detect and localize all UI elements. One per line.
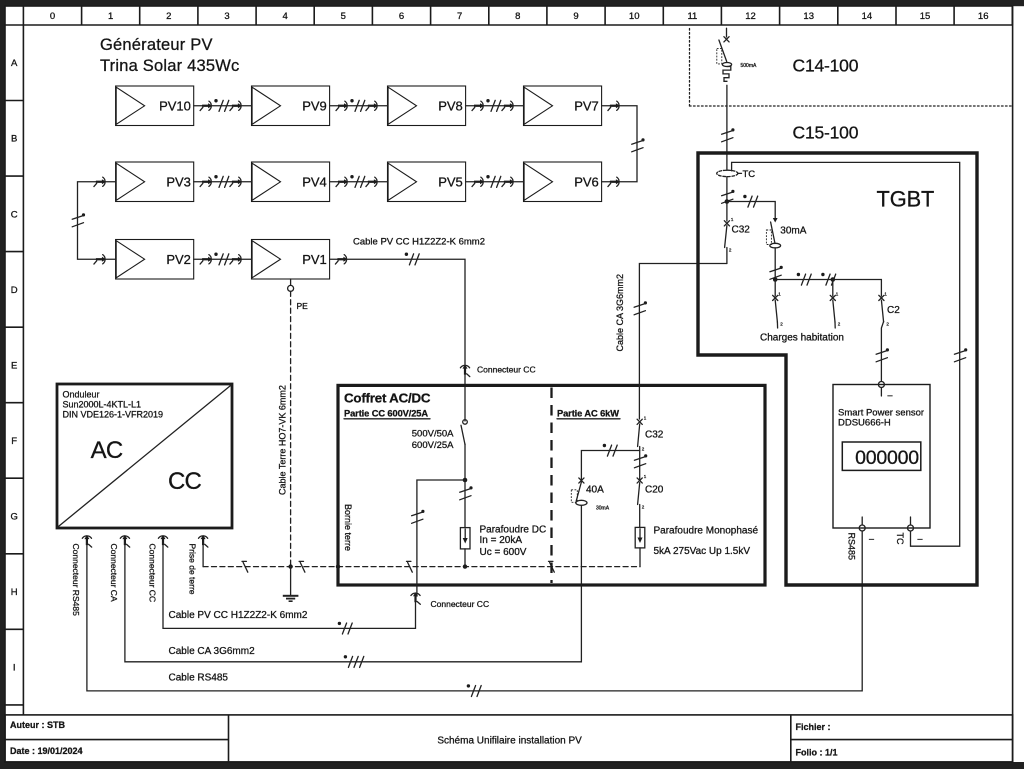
connector: Prise de terre (onduleur) (187, 535, 208, 595)
svg-text:Schéma Unifilaire installation: Schéma Unifilaire installation PV (437, 736, 582, 747)
junction TGBT input node (725, 199, 730, 204)
PV module PV4 (252, 162, 330, 202)
svg-text:PV9: PV9 (302, 99, 327, 114)
svg-text:TGBT: TGBT (877, 187, 935, 212)
surge arrester Parafoudre DC (460, 528, 470, 567)
svg-text:TC: TC (895, 533, 905, 545)
svg-text:In = 20kA: In = 20kA (480, 535, 523, 546)
svg-text:DIN VDE126-1-VFR2019: DIN VDE126-1-VFR2019 (63, 410, 164, 420)
wire PV5-PV6 (466, 175, 524, 187)
svg-text:000000: 000000 (855, 447, 919, 469)
svg-text:13: 13 (803, 11, 814, 22)
svg-text:10: 10 (629, 11, 640, 22)
svg-text:Auteur : STB: Auteur : STB (10, 720, 65, 730)
svg-text:7: 7 (457, 11, 462, 22)
wire PV2-PV1 (194, 253, 252, 265)
svg-text:Fichier :: Fichier : (796, 722, 831, 732)
breaker C2 (879, 280, 900, 327)
svg-text:9: 9 (573, 11, 578, 22)
label Parafoudre Monophase values (654, 526, 759, 558)
PV module PV10 (116, 86, 194, 126)
svg-text:Connecteur CC: Connecteur CC (477, 365, 536, 375)
wire PE dashed horizontal earth bus (203, 566, 640, 568)
PE terminal circle under PV1 (288, 279, 294, 291)
PV module PV6 (524, 162, 602, 202)
label Partie AC 6kW (557, 409, 620, 419)
PV module PV2 (116, 240, 194, 280)
svg-text:Folio : 1/1: Folio : 1/1 (796, 748, 838, 758)
PV module PV3 (116, 162, 194, 202)
zone boundary dotted C14 (690, 29, 1013, 107)
svg-text:40A: 40A (586, 485, 604, 496)
svg-text:2: 2 (166, 11, 171, 22)
inverter (Onduleur) box (57, 384, 232, 528)
svg-text:Cable RS485: Cable RS485 (169, 673, 229, 684)
svg-text:RS485: RS485 (847, 533, 857, 561)
wire Cable CA 3G6mm2 run (125, 506, 582, 667)
svg-text:Onduleur: Onduleur (63, 390, 100, 400)
svg-text:Cable PV CC H1Z2Z2-K 6mm2: Cable PV CC H1Z2Z2-K 6mm2 (353, 237, 485, 248)
svg-text:30mA: 30mA (780, 226, 806, 237)
wire DC to parafoudre (460, 480, 473, 528)
junction parafoudre DC earth (463, 564, 467, 568)
svg-text:Parafoudre Monophasé: Parafoudre Monophasé (654, 526, 759, 537)
svg-text:Uc = 600V: Uc = 600V (480, 547, 527, 558)
breaker C32 (coffret AC) (637, 416, 664, 452)
svg-text:PV6: PV6 (574, 174, 599, 189)
PV module PV1 (252, 240, 330, 280)
title block (5, 715, 1013, 762)
svg-text:Cable CA 3G6mm2: Cable CA 3G6mm2 (615, 274, 625, 352)
svg-text:Cable CA 3G6mm2: Cable CA 3G6mm2 (169, 646, 256, 657)
PE cable marks on earth bus (242, 561, 554, 572)
wire TC secondary loop (732, 162, 968, 546)
connector: Connecteur RS485 (onduleur) (71, 535, 92, 616)
wire PV7 to PV6 (right side) (602, 101, 645, 186)
disconnect switch 500V/50A (DC) (412, 420, 468, 480)
wire DC branch to connecteur CC (412, 480, 465, 596)
svg-text:8: 8 (515, 11, 520, 22)
svg-text:I: I (13, 663, 16, 674)
svg-text:11: 11 (687, 11, 697, 22)
PV module PV9 (252, 86, 330, 126)
svg-text:AC: AC (91, 437, 123, 464)
wire C2 to smart sensor (876, 322, 889, 382)
svg-text:14: 14 (862, 11, 873, 22)
svg-text:PV4: PV4 (302, 174, 327, 189)
wire Cable RS485 run (87, 531, 862, 697)
svg-text:Prise de terre: Prise de terre (187, 544, 197, 595)
svg-text:Cable PV CC H1Z2Z2-K 6mm2: Cable PV CC H1Z2Z2-K 6mm2 (169, 610, 308, 621)
svg-text:Coffret AC/DC: Coffret AC/DC (344, 391, 431, 406)
svg-text:16: 16 (978, 11, 989, 22)
wire Cable CA from TGBT down to coffret (634, 264, 727, 420)
svg-text:Parafoudre DC: Parafoudre DC (480, 525, 547, 536)
PV module PV7 (524, 86, 602, 126)
svg-text:E: E (11, 360, 17, 371)
wire PV1 output (Cable PV CC) to Coffret (330, 253, 465, 421)
svg-text:1: 1 (108, 11, 113, 22)
breaker charges habitation 1 (773, 280, 784, 329)
svg-text:PE: PE (297, 301, 309, 311)
svg-text:C32: C32 (645, 430, 664, 441)
svg-text:3: 3 (224, 11, 229, 22)
svg-text:0: 0 (50, 11, 55, 22)
svg-text:Date : 19/01/2024: Date : 19/01/2024 (10, 746, 83, 756)
svg-text:C2: C2 (887, 305, 900, 316)
svg-text:C32: C32 (732, 225, 751, 236)
svg-text:Partie AC 6kW: Partie AC 6kW (557, 409, 619, 419)
display 000000 (842, 442, 921, 470)
svg-text:C15-100: C15-100 (793, 123, 859, 143)
svg-text:5: 5 (341, 11, 346, 22)
svg-text:PV7: PV7 (574, 99, 599, 114)
Coffret AC/DC enclosure (338, 385, 765, 585)
svg-text:D: D (11, 285, 18, 296)
svg-text:C14-100: C14-100 (793, 56, 859, 76)
column header row with numbers 0-16 (5, 6, 1013, 25)
svg-text:6: 6 (399, 11, 404, 22)
svg-text:PV8: PV8 (438, 99, 463, 114)
svg-text:Trina Solar 435Wc: Trina Solar 435Wc (100, 57, 239, 75)
svg-text:Connecteur RS485: Connecteur RS485 (71, 544, 81, 617)
terminal TC (895, 517, 923, 545)
svg-text:600V/25A: 600V/25A (412, 440, 454, 451)
svg-text:30mA: 30mA (596, 506, 610, 512)
svg-text:TC: TC (743, 169, 756, 180)
svg-text:B: B (11, 134, 17, 145)
ground symbol (283, 567, 299, 602)
terminal sensor input (878, 382, 892, 401)
svg-text:C: C (11, 209, 18, 220)
wire Cable PV CC run (onduleur CC to coffret) (163, 541, 416, 634)
svg-text:–: – (918, 534, 923, 544)
TGBT enclosure (698, 153, 977, 585)
junction DC node (463, 478, 468, 483)
svg-text:PV2: PV2 (166, 252, 191, 267)
svg-text:CC: CC (168, 468, 202, 495)
svg-text:Charges habitation: Charges habitation (760, 333, 844, 344)
svg-text:5kA 275Vac Up 1.5kV: 5kA 275Vac Up 1.5kV (654, 546, 751, 557)
wire junction to 30mA RCD (727, 195, 778, 223)
row letter column A-I (5, 25, 23, 715)
svg-text:Connecteur CA: Connecteur CA (109, 544, 119, 602)
breaker C32 (TGBT) (724, 217, 750, 264)
svg-text:15: 15 (920, 11, 931, 22)
svg-text:F: F (11, 436, 17, 447)
junction Bornie terre node (336, 564, 340, 568)
svg-text:PV10: PV10 (159, 99, 191, 114)
PV module PV5 (388, 162, 466, 202)
wire earth (Prise de terre) down (202, 541, 204, 567)
connector: Connecteur CC (PV string into coffret) (460, 364, 535, 376)
svg-text:Partie CC 600V/25A: Partie CC 600V/25A (344, 409, 428, 419)
svg-text:PV5: PV5 (438, 174, 463, 189)
svg-text:Cable Terre HO7-VK 6mm2: Cable Terre HO7-VK 6mm2 (278, 385, 288, 495)
wire charges bus (775, 273, 881, 285)
svg-text:–: – (888, 390, 893, 400)
label Parafoudre DC values (480, 525, 547, 559)
junction charges bus node 2 (831, 277, 836, 282)
surge arrester Parafoudre Monophase (635, 527, 645, 566)
junction earth/PE node (288, 564, 292, 568)
wire PV3 to PV2 (left side) (72, 177, 115, 264)
wire C32 to C20 (634, 447, 647, 480)
svg-text:Sun2000L-4KTL-L1: Sun2000L-4KTL-L1 (63, 400, 142, 410)
svg-text:A: A (11, 58, 18, 69)
wire TC to junction (722, 177, 735, 221)
breaker C20 (637, 474, 664, 527)
svg-text:G: G (11, 511, 18, 522)
current transformer TC (717, 169, 756, 180)
connector: Connecteur CA (onduleur) (109, 535, 130, 602)
wire C32 branch to 40A RCD (581, 444, 639, 479)
wire PV3-PV4 (194, 175, 252, 187)
svg-text:Générateur PV: Générateur PV (100, 36, 213, 54)
connector: Connecteur CC (under coffret) (411, 592, 489, 609)
junction charges bus node 1 (773, 277, 778, 282)
svg-text:C20: C20 (645, 485, 664, 496)
wire 30mA to bus (770, 248, 783, 280)
PV module PV8 (388, 86, 466, 126)
RCD 30mA (TGBT) (766, 222, 806, 248)
wire PE dashed from PV1 to earth (290, 291, 292, 566)
svg-text:H: H (11, 587, 18, 598)
svg-text:PV3: PV3 (166, 174, 191, 189)
terminal RS485 (847, 517, 875, 560)
wire PV10-PV9 (194, 99, 252, 111)
svg-text:–: – (869, 534, 874, 544)
svg-text:DDSU666-H: DDSU666-H (838, 418, 891, 429)
svg-text:500V/50A: 500V/50A (412, 429, 454, 440)
svg-text:Connecteur CC: Connecteur CC (147, 544, 157, 603)
wire PV4-PV5 (330, 175, 388, 187)
wire AGCP to TGBT (722, 85, 735, 170)
svg-text:500mA: 500mA (741, 63, 758, 69)
wire PV9-PV8 (330, 99, 388, 111)
utility breaker AGCP 500mA (717, 28, 757, 81)
Smart Power sensor DDSU666-H box (833, 385, 930, 529)
svg-text:12: 12 (745, 11, 756, 22)
svg-text:Bornie terre: Bornie terre (343, 504, 353, 551)
wire PV8-PV7 (466, 99, 524, 111)
svg-text:4: 4 (283, 11, 288, 22)
breaker charges habitation 2 (830, 280, 841, 329)
svg-text:PV1: PV1 (302, 252, 327, 267)
svg-text:Connecteur CC: Connecteur CC (431, 599, 490, 609)
connector: Connecteur CC (onduleur) (147, 535, 168, 602)
label Partie CC 600V/25A (344, 409, 430, 419)
RCD 40A 30mA (571, 478, 609, 512)
